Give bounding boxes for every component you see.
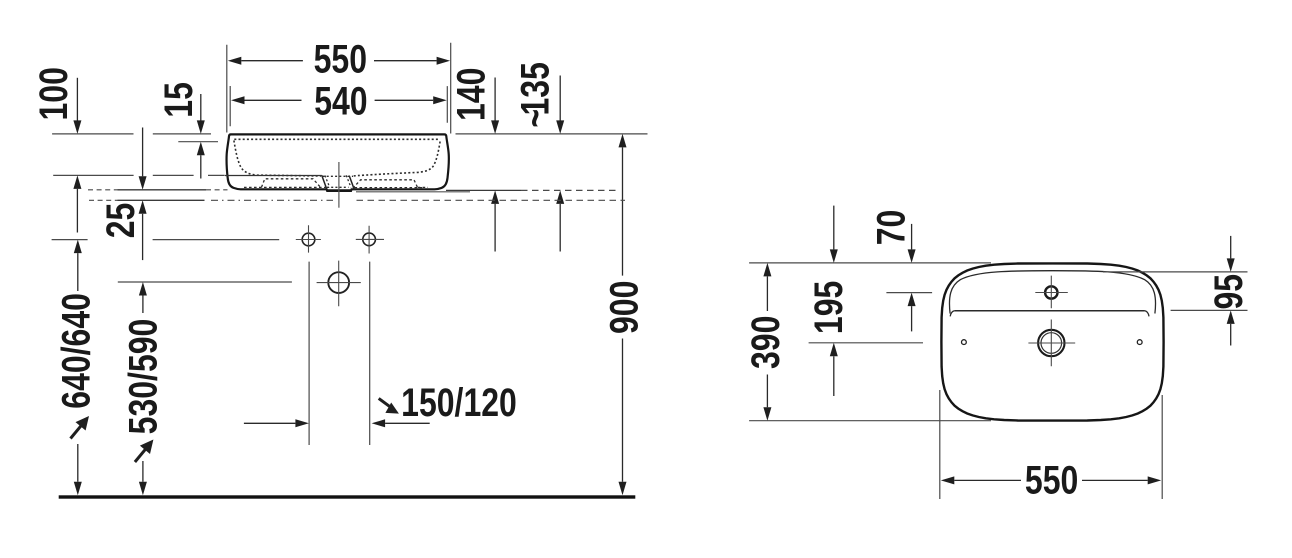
dimension 15 arrows — [200, 94, 202, 121]
deck front edge line — [954, 310, 1145, 312]
15 lower extension line — [178, 141, 218, 143]
150/120 slant arrow — [379, 398, 393, 408]
svg-text:100: 100 — [31, 67, 76, 120]
countertop line right of basin — [446, 189, 521, 191]
bowl interior dotted right — [353, 142, 440, 177]
550 top view extension lines — [940, 390, 1162, 499]
svg-text:135: 135 — [512, 62, 557, 115]
svg-text:540: 540 — [314, 78, 367, 123]
top view outline — [941, 263, 1163, 420]
drain hidden edge dotted — [323, 175, 354, 177]
530/590 slant arrow — [135, 446, 149, 462]
svg-text:640/640: 640/640 — [53, 293, 98, 409]
svg-text:~: ~ — [512, 109, 557, 128]
195 extension line — [809, 342, 923, 344]
countertop top line — [88, 189, 228, 191]
390 extension lines — [749, 263, 991, 421]
svg-text:390: 390 — [743, 316, 788, 369]
mid level line y=175.4 — [53, 174, 225, 176]
level line y=239.6 — [52, 239, 280, 241]
svg-text:140: 140 — [448, 68, 493, 121]
level line y=282 — [118, 281, 292, 283]
fixing hole right circle — [363, 233, 376, 246]
drain hole circle elevation — [328, 272, 349, 293]
dimension 140 arrows — [494, 78, 496, 121]
overflow pin left — [962, 340, 967, 345]
svg-text:900: 900 — [601, 281, 646, 334]
dimension 100 arrows — [76, 78, 78, 121]
basin front view outer outline — [227, 134, 449, 191]
svg-text:550: 550 — [1025, 457, 1078, 502]
svg-text:150/120: 150/120 — [401, 380, 517, 425]
drain slants — [322, 175, 327, 189]
bowl front edge line — [225, 175, 322, 177]
rim-top level line — [52, 133, 647, 135]
countertop bottom line — [89, 199, 118, 201]
dimension 550 extension lines — [227, 43, 451, 134]
95 extension lines — [1103, 272, 1248, 311]
dimension 25 arrows — [142, 128, 144, 177]
svg-text:530/590: 530/590 — [120, 319, 165, 435]
bowl interior dotted left — [234, 141, 321, 177]
svg-text:550: 550 — [314, 36, 367, 81]
svg-text:95: 95 — [1206, 274, 1251, 310]
svg-text:25: 25 — [98, 203, 143, 239]
640/640 slant arrow — [71, 422, 85, 438]
overflow pin right — [1137, 340, 1142, 345]
extension lines to 150/120 — [309, 262, 370, 445]
dimension ~135 arrows — [559, 76, 561, 121]
dimension 540 extension lines — [230, 86, 447, 126]
drain bottom dashed — [327, 186, 349, 188]
faucet hole — [1045, 286, 1057, 298]
top view inner rim line — [949, 271, 1155, 314]
svg-text:15: 15 — [156, 82, 201, 118]
svg-text:195: 195 — [806, 281, 851, 334]
drain boss bottom edge — [327, 189, 351, 191]
plinth hidden edges left — [244, 186, 326, 188]
drain hole top view — [1038, 330, 1064, 356]
floor line — [59, 495, 636, 498]
70 extension line — [886, 292, 932, 294]
countertop line under basin right — [356, 191, 470, 193]
basin rim inner dotted line — [234, 138, 439, 140]
plinth hidden edges right — [355, 186, 429, 188]
basin centre line — [338, 162, 340, 208]
svg-text:70: 70 — [868, 210, 913, 246]
fixing hole left circle — [302, 233, 315, 246]
dimension 150/120 — [244, 422, 296, 424]
